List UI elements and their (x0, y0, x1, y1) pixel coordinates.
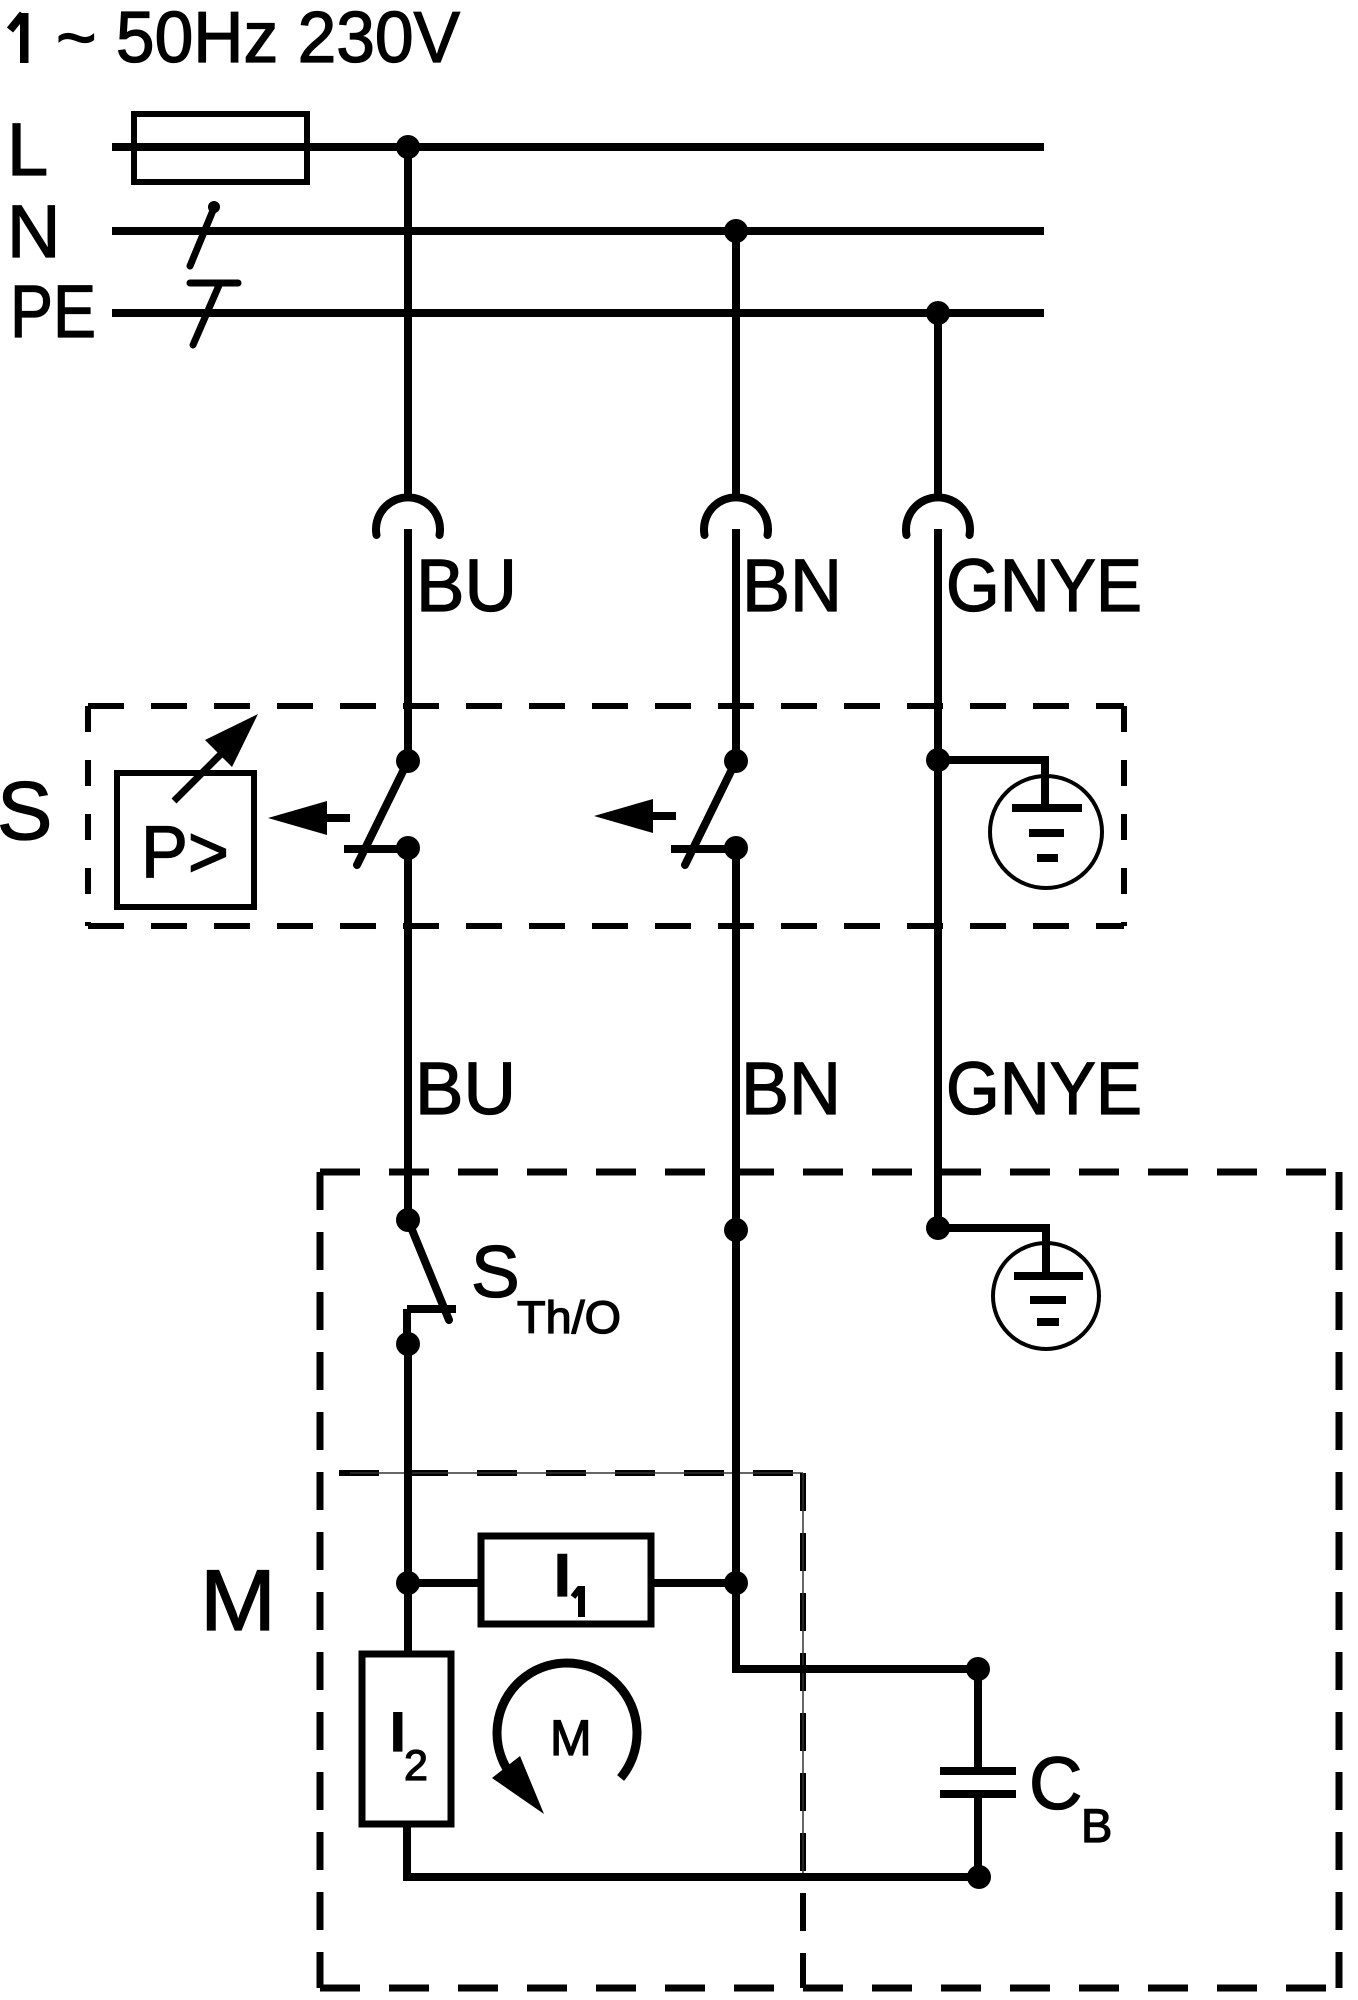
wire BN below connector (732, 529, 740, 762)
N conductor slash mark (190, 201, 220, 266)
wire N bus (112, 227, 1044, 235)
adjustment arrow on P> (174, 714, 258, 801)
node GNYE in box M (926, 1216, 950, 1240)
fuse F1 (134, 114, 307, 182)
svg-text:S: S (0, 764, 52, 857)
svg-text:S: S (471, 1232, 520, 1313)
wire to I1 left (408, 1579, 481, 1587)
svg-text:~ 50Hz 230V: ~ 50Hz 230V (56, 0, 460, 78)
inner thin line top (350, 1472, 803, 1474)
node capacitor top (966, 1657, 990, 1681)
wire GNYE below connector (934, 529, 942, 762)
svg-text:GNYE: GNYE (946, 1047, 1142, 1130)
wire I1 right to BN (651, 1579, 736, 1587)
dashed box S right edge (1121, 706, 1127, 926)
dashed box M left edge (317, 1172, 324, 1988)
svg-text:M: M (550, 1710, 592, 1766)
wire BU drop from L (404, 147, 412, 498)
wire BU below switch (404, 848, 412, 1221)
capacitor CB plates (940, 1771, 1016, 1794)
wire GNYE earth branch in box M (938, 1228, 1046, 1277)
title 1 ~ 50Hz 230V (10, 13, 29, 63)
wire L bus (112, 143, 1044, 151)
switch S contact BU (344, 749, 420, 865)
earth symbol in box M (993, 1243, 1099, 1349)
node capacitor bottom (967, 1865, 991, 1889)
node BN in box M (724, 1218, 748, 1242)
wire BN drop from N (732, 231, 740, 498)
PE conductor slash mark (190, 283, 238, 345)
svg-text:GNYE: GNYE (946, 544, 1142, 627)
wire BU into winding I2 (404, 1583, 412, 1654)
node BN winding junction (724, 1571, 748, 1595)
svg-text:2: 2 (404, 1742, 428, 1790)
connector socket BU (376, 497, 440, 535)
motor rotation arc (497, 1663, 637, 1778)
node N junction (724, 219, 748, 243)
wire GNYE down to motor box (934, 760, 942, 1228)
winding I1 box (481, 1536, 651, 1624)
capacitor CB bottom lead (974, 1794, 982, 1877)
actuator arrow to P> box (268, 801, 350, 835)
svg-text:BN: BN (741, 1047, 841, 1130)
svg-text:N: N (7, 190, 60, 273)
winding I2 box (362, 1654, 451, 1824)
wire BU below connector (404, 529, 412, 762)
wire GNYE earth branch in box S (938, 760, 1045, 809)
capacitor CB top lead (974, 1669, 982, 1772)
svg-text:P>: P> (141, 812, 229, 893)
node BU winding junction (396, 1571, 420, 1595)
svg-text:M: M (200, 1553, 276, 1649)
node BU in box M (396, 1208, 420, 1232)
svg-text:C: C (1029, 1742, 1082, 1825)
svg-text:B: B (1081, 1799, 1112, 1852)
dashed box S bottom edge (88, 923, 1124, 929)
svg-text:L: L (7, 108, 48, 191)
inner thin line right (802, 1473, 804, 1878)
inner dashed stator boundary right (800, 1473, 806, 1988)
dashed box M bottom edge (320, 1985, 1339, 1992)
earth symbol in box S (990, 776, 1102, 888)
connector socket GNYE (906, 497, 970, 535)
wire BN below switch (732, 848, 740, 1231)
dashed box S left edge (85, 706, 91, 926)
dashed box S top edge (88, 703, 1124, 709)
node L junction (396, 135, 420, 159)
dashed box M right edge (1336, 1172, 1343, 1988)
svg-text:I: I (554, 1542, 571, 1609)
svg-text:Th/O: Th/O (517, 1292, 621, 1343)
dashed box M top edge (320, 1169, 1339, 1176)
svg-text:PE: PE (10, 270, 96, 353)
wire PE bus (112, 309, 1044, 317)
svg-text:BN: BN (742, 544, 842, 627)
node PE junction (926, 301, 950, 325)
node GNYE in box S (926, 748, 950, 772)
actuator arrow on BN switch (594, 799, 676, 833)
wire I2 bottom to bottom rail (407, 1824, 979, 1877)
switch S contact BN (671, 749, 748, 865)
wire BU from thermal switch to winding node (404, 1344, 412, 1583)
svg-text:BU: BU (415, 1047, 516, 1130)
connector socket BN (704, 497, 768, 535)
pressure sensor P> box (117, 773, 254, 907)
motor rotation arrowhead (492, 1756, 544, 1814)
wire GNYE drop from PE (934, 313, 942, 498)
svg-text:BU: BU (416, 544, 517, 627)
inner dashed stator boundary top (339, 1470, 803, 1476)
wire BN down and right to capacitor (736, 1231, 978, 1669)
thermal switch S_Th/O (396, 1220, 456, 1356)
